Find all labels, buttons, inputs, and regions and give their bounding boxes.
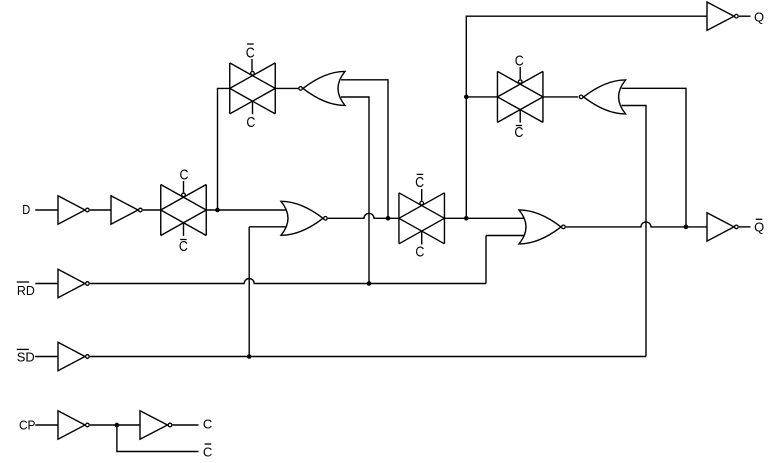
svg-text:C: C [514, 124, 523, 141]
wire node c vertical up to Q line [466, 16, 707, 218]
wire G3 top input feedback [341, 80, 388, 219]
node C clock label [203, 417, 212, 432]
NOR gate G4 (left-facing, slave latch) [579, 80, 625, 114]
wire Q-bar bubble to label [739, 226, 751, 228]
wire D input to inverter U1 [35, 209, 58, 211]
svg-text:C: C [415, 174, 424, 191]
transmission gate TG2 (top-left) [230, 59, 276, 114]
label C-bar (TG3 top control) [415, 174, 424, 191]
svg-text:C: C [179, 238, 188, 255]
node d junction dot (TG4 input tap) [464, 95, 469, 100]
wire G1 output to TG3 with hop over vertical [328, 213, 399, 218]
wire G2 output to Q-bar inverter with hop [566, 222, 707, 227]
label C (TG2 bottom control) [246, 114, 255, 131]
svg-text:C: C [515, 52, 524, 69]
label C (TG3 bottom control) [415, 243, 424, 260]
node h junction dot (C-bar tap) [115, 423, 120, 428]
inverter U6 [140, 411, 172, 439]
label C-bar (TG4 bottom control) [514, 124, 523, 141]
transmission gate TG3 (middle) [399, 189, 445, 245]
svg-text:D: D [22, 202, 30, 217]
wire C-bar branch [117, 425, 199, 452]
node Q output label [754, 9, 764, 24]
wire U5 to U6 [90, 424, 140, 426]
svg-text:CP: CP [19, 417, 36, 432]
label C (TG4 top control) [515, 52, 524, 69]
wire G3 bottom input from RD line [341, 97, 369, 284]
wire CP to inverter U5 [35, 424, 58, 426]
wire TG2 output to NOR G3 [275, 87, 298, 89]
node Q-bar output label [754, 219, 764, 234]
NOR gate G1 (master) [281, 201, 327, 235]
wire G4 top input from Q-bar line [622, 88, 686, 227]
wire U2 to transmission gate TG1 [143, 209, 161, 211]
node a junction dot [215, 208, 220, 213]
transmission gate TG1 [161, 181, 207, 236]
wire TG4 output to NOR G4 [543, 96, 578, 98]
inverter U4 [58, 342, 89, 370]
label C-bar (TG2 top control) [246, 44, 255, 61]
node g junction dot (SD line) [247, 354, 252, 359]
wire U6 to C label [173, 424, 199, 426]
label C (TG1 top control) [180, 166, 189, 183]
node D input label [22, 202, 30, 217]
inverter U8 (Q-bar output) [707, 213, 738, 241]
wire Q bubble to label [739, 15, 751, 17]
wire U1 to U2 [90, 209, 111, 211]
inverter U7 (Q output) [707, 2, 738, 30]
inverter U1 [58, 196, 89, 224]
inverter U5 [58, 411, 89, 439]
NOR gate G3 (left-facing, master latch) [299, 71, 345, 105]
wire G4 bottom input from SD line [622, 106, 646, 357]
wire TG3 output to NOR G2 top input [444, 217, 525, 219]
node c junction dot [464, 216, 469, 221]
wire RD to inverter U3 [35, 283, 58, 285]
svg-text:Q: Q [754, 9, 764, 24]
node CP input label [19, 417, 36, 432]
inverter U3 [58, 269, 89, 297]
svg-text:C: C [203, 417, 212, 432]
wire node d to TG4 [466, 96, 497, 98]
svg-text:Q: Q [754, 219, 764, 234]
wire TG1 output to NOR G1 top input [206, 209, 288, 211]
wire vertical node a to TG2 loop [218, 88, 230, 210]
wire SD line [90, 356, 646, 358]
node f junction dot (RD line) [367, 281, 372, 286]
inverter U2 [111, 196, 142, 224]
svg-text:SD: SD [17, 349, 35, 364]
node e junction dot (Q-bar line) [684, 225, 689, 230]
NOR gate G2 (slave) [519, 210, 565, 244]
wire SD to inverter U4 [35, 356, 58, 358]
transmission gate TG4 (top-right) [497, 67, 543, 123]
svg-text:C: C [246, 44, 255, 61]
node SD input label [17, 349, 35, 364]
svg-text:C: C [180, 166, 189, 183]
node C-bar clock label [203, 444, 212, 459]
svg-text:C: C [246, 114, 255, 131]
wire G1 bottom input [249, 227, 288, 357]
node RD input label [17, 282, 35, 298]
svg-text:C: C [415, 243, 424, 260]
node b junction dot [386, 216, 391, 221]
label C-bar (TG1 bottom control) [179, 238, 188, 255]
wire RD line with hop at x=249 [90, 279, 486, 284]
wire G2 bottom input from RD line [486, 236, 526, 284]
svg-text:C: C [203, 444, 212, 459]
svg-text:RD: RD [17, 283, 35, 298]
